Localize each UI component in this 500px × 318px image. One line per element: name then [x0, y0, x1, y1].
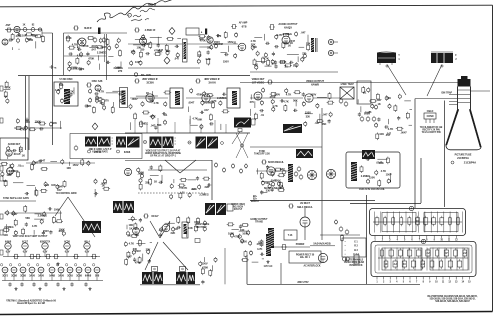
value label	[277, 33, 283, 37]
terminal circle 1225	[68, 66, 71, 72]
value label	[194, 220, 200, 224]
terminal circle 213	[57, 89, 60, 95]
svg-text:DISCRIM: DISCRIM	[213, 44, 223, 46]
value label	[137, 46, 142, 50]
svg-text:270: 270	[118, 69, 123, 73]
resistor R615	[127, 251, 130, 259]
terminal circle 1523	[295, 62, 298, 68]
terminal circle 4713	[188, 192, 191, 198]
terminal circle 268	[164, 101, 167, 107]
wire	[257, 168, 259, 174]
capacitor C542	[239, 224, 242, 228]
terminal circle 467	[139, 178, 142, 184]
svg-text:150V: 150V	[43, 229, 49, 233]
diamond test point	[169, 28, 175, 35]
value label	[217, 34, 222, 38]
svg-text:3CB6: 3CB6	[20, 276, 27, 278]
speaker jack P1	[328, 39, 338, 44]
svg-text:10K: 10K	[134, 233, 139, 237]
wire vertical x52	[52, 33, 54, 145]
terminal circle 4512	[40, 219, 43, 225]
value label	[146, 91, 149, 95]
svg-text:OF PIX I.F. AT GRID TP-1: OF PIX I.F. AT GRID TP-1	[150, 154, 177, 157]
ac interlock text	[304, 265, 321, 268]
resistor R154	[282, 33, 290, 36]
value label	[400, 130, 407, 134]
resistor R506	[278, 174, 286, 177]
svg-text:330: 330	[306, 115, 311, 119]
terminal circle 299	[329, 112, 332, 118]
svg-text:6AW8: 6AW8	[5, 241, 12, 244]
resistor R2614	[140, 120, 143, 128]
svg-text:10K: 10K	[51, 183, 56, 187]
wire	[262, 258, 264, 260]
wire row A bottom	[128, 67, 200, 69]
svg-text:6AQ5: 6AQ5	[284, 26, 292, 30]
capacitor C159	[274, 45, 278, 48]
value label	[228, 232, 234, 236]
resistor R3115	[396, 127, 404, 130]
svg-text:AT VERT RATE: AT VERT RATE	[92, 151, 108, 154]
terminal circle 153	[275, 34, 278, 40]
focus coil pictorial R	[431, 52, 457, 63]
terminal circle 126	[117, 38, 120, 44]
value label	[3, 179, 8, 183]
leader from yoke L	[386, 65, 406, 96]
terminal circle 618	[147, 249, 150, 255]
resistor R233	[4, 91, 7, 99]
wire	[254, 101, 256, 108]
value label	[381, 169, 387, 173]
wire	[135, 39, 146, 41]
tube V5	[238, 43, 246, 51]
capacitor C291	[302, 92, 305, 96]
wire	[190, 124, 197, 126]
value label	[284, 65, 288, 69]
strip2 components	[381, 248, 468, 269]
svg-text:470K: 470K	[16, 34, 22, 38]
capacitor C4510	[25, 222, 28, 226]
svg-text:Bound W Spec Co. Inc 9M: Bound W Spec Co. Inc 9M	[17, 303, 45, 305]
wire vertical x212	[211, 160, 213, 200]
resistor R528	[378, 179, 381, 187]
capacitor C2612	[162, 112, 166, 115]
svg-text:22K: 22K	[87, 104, 92, 108]
svg-text:470K: 470K	[150, 114, 156, 118]
wire y235 segment	[320, 234, 360, 236]
wire	[12, 47, 14, 50]
terminal circle 2210	[120, 98, 123, 104]
delay line dark photo	[232, 118, 255, 145]
caption under waveform 2	[117, 150, 131, 154]
terminal circle 2213	[103, 105, 106, 111]
terminal circle 1514	[264, 52, 267, 58]
label sync sep	[3, 197, 29, 200]
value label	[87, 104, 92, 108]
label 21CBP4A top	[451, 161, 476, 165]
resistor R1522	[284, 64, 292, 67]
svg-text:POWER: POWER	[296, 244, 305, 246]
bottom right text block	[428, 295, 478, 303]
svg-text:100K: 100K	[59, 228, 65, 232]
value label	[240, 228, 245, 232]
svg-text:.0047: .0047	[100, 45, 107, 49]
resistor R483	[177, 216, 180, 224]
value label	[146, 248, 151, 252]
terminal circle 616	[132, 250, 135, 256]
value label	[35, 120, 41, 124]
svg-text:470K: 470K	[88, 56, 94, 60]
capacitor C1412	[207, 50, 210, 54]
on-off switch	[273, 245, 310, 250]
wire	[297, 56, 299, 62]
svg-text:4.7K: 4.7K	[19, 127, 25, 131]
wire	[18, 49, 20, 50]
svg-text:56K: 56K	[3, 179, 8, 183]
resistor R475	[203, 177, 211, 180]
terminal circle 4711	[170, 194, 173, 200]
value label	[139, 122, 148, 126]
value label	[54, 208, 60, 212]
value label	[266, 189, 271, 193]
strip2 group outlines	[382, 248, 468, 270]
svg-text:528-39145, 528-39123, 528-3916: 528-39145, 528-39123, 528-39167	[435, 300, 470, 303]
svg-text:4.7K: 4.7K	[272, 104, 278, 108]
terminal circle 116	[16, 38, 19, 44]
value label	[199, 193, 208, 197]
svg-text:2.2MEG: 2.2MEG	[361, 174, 370, 178]
wire	[189, 116, 191, 125]
capacitor C4520	[49, 230, 52, 234]
value label	[100, 45, 107, 49]
capacitor C3111	[397, 116, 400, 120]
value label	[174, 56, 180, 60]
resistor R141	[198, 35, 206, 38]
wire vertical pair x25	[26, 76, 30, 150]
value label	[22, 33, 27, 37]
svg-text:T-16: T-16	[288, 235, 293, 237]
terminal circle 492	[131, 216, 134, 222]
terminal circle 2714	[200, 124, 203, 130]
value label	[364, 110, 371, 114]
tube V6 audio output	[282, 36, 290, 44]
value label	[135, 261, 141, 265]
svg-text:56K: 56K	[293, 98, 298, 102]
svg-text:4.7K: 4.7K	[263, 56, 269, 60]
terminal circle 312	[385, 95, 388, 101]
value label	[104, 99, 109, 103]
label horiz output trans	[251, 219, 269, 224]
svg-text:470K: 470K	[135, 261, 141, 265]
picture tube cap	[458, 76, 471, 87]
terminal circle 157	[251, 45, 254, 51]
svg-text:5AS4A/5U4GB: 5AS4A/5U4GB	[313, 242, 330, 246]
wire	[130, 122, 132, 130]
capacitor C1521	[274, 60, 277, 64]
capacitor C1310	[157, 43, 160, 47]
value label	[158, 50, 163, 54]
svg-text:TO 21-CONTY PIN: TO 21-CONTY PIN	[421, 132, 440, 134]
terminal circle 631	[241, 238, 244, 244]
resistor R4513	[52, 216, 55, 224]
value label	[71, 67, 80, 71]
terminal circle 461	[137, 167, 140, 173]
terminal circle 145	[235, 32, 238, 38]
waveform scope photo 2	[116, 137, 140, 148]
svg-text:3CA5: 3CA5	[67, 275, 74, 278]
resistor R4517	[22, 228, 25, 236]
wire long horizontal y82	[240, 82, 460, 84]
wire vertical boost x322	[321, 108, 323, 200]
wire	[409, 124, 412, 126]
wire	[6, 224, 8, 233]
value label	[280, 167, 286, 171]
small box on top row	[186, 28, 203, 35]
filament tube 6CD6	[64, 242, 71, 254]
value label	[4, 95, 7, 99]
value label	[144, 42, 150, 46]
value label	[234, 234, 240, 238]
svg-text:10K: 10K	[379, 132, 384, 136]
value label	[379, 132, 384, 136]
tube socket top view A	[307, 170, 316, 179]
terminal circle 632	[249, 241, 252, 247]
svg-text:150V: 150V	[386, 172, 392, 176]
svg-text:.0047: .0047	[400, 130, 407, 134]
terminal circle 1317	[166, 50, 169, 56]
resistor R428	[30, 163, 33, 171]
value label	[96, 96, 102, 100]
svg-text:.0047: .0047	[280, 60, 287, 64]
svg-text:.047: .047	[315, 121, 321, 125]
label 4.5MC IF	[134, 28, 156, 32]
svg-text:6AW8: 6AW8	[311, 83, 319, 87]
svg-text:22K: 22K	[205, 185, 210, 189]
resistor R1512	[307, 44, 310, 52]
svg-text:270: 270	[302, 52, 307, 56]
value label	[205, 185, 210, 189]
svg-text:6AW8: 6AW8	[85, 275, 92, 278]
wire	[357, 99, 359, 103]
resistor R2212	[92, 106, 95, 114]
svg-text:330: 330	[284, 41, 289, 45]
resistor R121	[67, 35, 70, 43]
value label	[99, 90, 105, 94]
svg-text:.047: .047	[150, 124, 156, 128]
svg-text:.047: .047	[40, 159, 46, 163]
resistor R247	[15, 127, 23, 130]
value label	[43, 229, 49, 233]
value label	[40, 159, 46, 163]
value label	[388, 127, 394, 131]
wire	[360, 106, 362, 112]
svg-text:6.3V: 6.3V	[85, 252, 90, 254]
filament tube 3AU6 row2	[29, 267, 36, 277]
capacitor C489	[176, 226, 180, 229]
wire C3 chain	[256, 170, 288, 172]
terminal circles on antenna wire	[23, 28, 42, 32]
svg-text:100K: 100K	[115, 66, 121, 70]
svg-text:.01: .01	[77, 45, 81, 49]
wire	[136, 243, 145, 245]
svg-text:150V: 150V	[275, 179, 281, 183]
svg-text:3AU6: 3AU6	[208, 81, 216, 85]
photo3 side ticks	[175, 138, 177, 144]
strip1 components	[375, 216, 459, 226]
value label	[72, 43, 78, 47]
value label	[275, 179, 281, 183]
capacitor C515	[271, 188, 274, 192]
terminal circle 278	[219, 100, 222, 106]
terminal circle 142	[207, 35, 210, 41]
svg-text:1K: 1K	[19, 147, 22, 151]
resistor R269	[134, 113, 137, 121]
terminal circle 529	[387, 178, 390, 184]
resistor R524	[360, 165, 363, 173]
resistor R277	[212, 101, 215, 109]
capacitor C319	[377, 117, 380, 121]
svg-text:1K: 1K	[377, 102, 380, 106]
svg-text:2.2MEG: 2.2MEG	[139, 122, 148, 126]
svg-text:B2+ OF 1: B2+ OF 1	[300, 257, 311, 259]
waveform scope photo 1	[85, 137, 111, 147]
tube V1b mixer	[2, 39, 8, 45]
horiz freq caption	[231, 204, 245, 211]
terminal circle 4516	[14, 230, 17, 236]
value label	[29, 38, 34, 42]
svg-text:4.7K: 4.7K	[211, 99, 217, 103]
terminal circle 4812	[203, 226, 206, 232]
terminal circle 234	[6, 98, 9, 104]
svg-text:470K: 470K	[202, 266, 208, 270]
value label	[207, 45, 212, 49]
value label	[280, 60, 287, 64]
sync takeoff text	[254, 151, 270, 156]
value label	[251, 42, 256, 46]
terminal circle 4521	[62, 231, 65, 237]
waveform scope photo 7	[113, 201, 134, 213]
value label	[198, 53, 201, 57]
tube V8 3CA5	[6, 150, 21, 156]
terminal circle V	[74, 145, 78, 151]
tube V9 2nd video IF	[146, 94, 154, 102]
value label	[19, 147, 22, 151]
value label	[205, 57, 211, 61]
svg-text:.0047: .0047	[188, 101, 195, 105]
wire under vert blocks	[140, 284, 200, 286]
svg-text:1K: 1K	[198, 53, 201, 57]
resistor R541	[227, 223, 235, 226]
terminal circle 442	[103, 179, 106, 185]
wire	[199, 46, 209, 48]
value label	[289, 39, 296, 43]
tube V13 sync sep	[7, 164, 14, 174]
svg-text:2.2MEG: 2.2MEG	[283, 32, 292, 36]
T16 box	[284, 230, 297, 240]
resistor R417	[4, 180, 7, 188]
waveform scope photo 4	[196, 137, 219, 149]
terminal circle 1219	[68, 61, 71, 67]
svg-text:1K: 1K	[4, 95, 7, 99]
value label	[202, 261, 208, 265]
circled pin digits row2	[0, 264, 94, 266]
svg-text:•: •	[345, 253, 346, 256]
value label	[211, 99, 217, 103]
value label	[66, 166, 71, 170]
wire	[21, 165, 24, 167]
interlock	[349, 255, 362, 267]
resistor R139	[149, 41, 152, 49]
wire	[150, 175, 159, 177]
filament tube 6SN7GTA	[40, 241, 51, 254]
terminal circle 227	[95, 98, 98, 104]
terminal circle 1513	[256, 51, 259, 57]
filament ground symbols	[14, 287, 91, 290]
wire	[261, 181, 272, 183]
wire	[112, 102, 114, 107]
svg-text:.047: .047	[301, 31, 307, 35]
svg-text:330: 330	[145, 181, 150, 185]
value label	[97, 51, 106, 55]
capacitor C138	[142, 44, 146, 47]
value label	[166, 49, 171, 53]
svg-text:270: 270	[293, 64, 298, 68]
tube socket top view B	[326, 169, 335, 178]
HOT hatched bar	[268, 228, 274, 248]
resistor R4610	[139, 183, 142, 191]
value label	[164, 113, 168, 117]
tube V16 horiz output	[267, 167, 275, 175]
resistor R4515	[2, 228, 10, 231]
svg-text:HV RECT: HV RECT	[300, 203, 311, 205]
value label	[25, 216, 30, 220]
wire	[35, 41, 37, 48]
capacitor C1223	[106, 61, 110, 64]
wire	[221, 52, 227, 54]
filament wire row 2	[2, 273, 103, 281]
svg-text:56K: 56K	[198, 118, 203, 122]
value label	[265, 181, 270, 185]
svg-text:3AU6: 3AU6	[38, 275, 45, 278]
vert connector box 2	[180, 267, 186, 272]
terminal circle 167	[255, 65, 258, 71]
wire	[106, 92, 118, 94]
svg-text:270: 270	[100, 101, 105, 105]
wire	[256, 61, 266, 63]
handwritten note above border	[97, 0, 176, 22]
wire	[34, 218, 44, 220]
svg-text:5AN8: 5AN8	[49, 275, 56, 278]
value label	[137, 171, 144, 175]
svg-text:10K: 10K	[188, 226, 193, 230]
svg-text:4.7K: 4.7K	[381, 169, 387, 173]
terminal circle 433	[44, 181, 47, 187]
svg-text:330: 330	[29, 38, 34, 42]
wire	[265, 65, 272, 67]
capacitor C112	[17, 33, 21, 36]
B2 bus wire	[247, 282, 420, 284]
capacitor C462	[150, 165, 153, 169]
terminal circle 163	[271, 59, 274, 65]
svg-text:.0047: .0047	[137, 171, 144, 175]
wire	[27, 185, 35, 187]
terminal circle 451	[6, 210, 9, 216]
wire	[287, 53, 299, 55]
label video det	[252, 78, 273, 85]
terminal circle 288	[271, 99, 274, 105]
svg-text:.01: .01	[271, 61, 275, 65]
resistor R516	[277, 188, 285, 191]
